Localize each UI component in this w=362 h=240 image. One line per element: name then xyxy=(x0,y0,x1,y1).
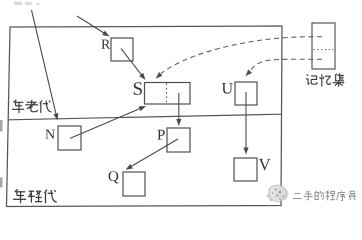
label 年 of 年轻代 xyxy=(13,189,26,203)
watermark char 手 xyxy=(304,191,313,200)
arrow N to S xyxy=(70,106,146,138)
label S xyxy=(134,82,142,95)
dashed curve from remembered set to U xyxy=(245,59,322,76)
label Q xyxy=(109,171,119,183)
heap outer rectangle xyxy=(7,26,283,207)
label 轻 of 年轻代 xyxy=(28,191,42,202)
object box Q xyxy=(123,172,145,196)
object box R xyxy=(111,38,133,61)
label 忆 of 记忆集 xyxy=(320,74,331,86)
watermark char 序 xyxy=(337,191,346,201)
dashed curve from remembered set to S xyxy=(156,37,322,79)
watermark char 程 xyxy=(326,191,335,201)
faint print smudge top-left xyxy=(14,2,40,6)
object box P xyxy=(167,128,190,152)
label R xyxy=(101,40,110,49)
object box S (two cells) xyxy=(145,83,191,105)
label 年 of 年老代 xyxy=(12,100,24,113)
arrow U to V xyxy=(243,92,248,155)
remembered set box 记忆集 xyxy=(312,23,335,69)
generation divider line xyxy=(9,114,282,120)
label 老 of 年老代 xyxy=(25,100,38,112)
object box N xyxy=(58,126,81,150)
label 记 of 记忆集 xyxy=(306,74,317,84)
arrow from GC root (top) to R xyxy=(77,16,110,37)
object box V xyxy=(234,158,257,181)
watermark char 二 xyxy=(293,194,301,199)
watermark logo icon xyxy=(267,185,289,202)
watermark char 员 xyxy=(350,191,356,200)
label 代 of 年老代 xyxy=(40,100,52,113)
arrow R to S xyxy=(121,49,146,81)
label N xyxy=(45,130,54,139)
label 集 of 记忆集 xyxy=(333,74,345,87)
label 代 of 年轻代 xyxy=(44,190,56,204)
arrow from GC root (top) to N xyxy=(32,10,59,121)
arrow S to P xyxy=(176,93,181,126)
object box U xyxy=(235,82,257,105)
arrow P to Q xyxy=(126,139,179,170)
watermark char 的 xyxy=(315,191,323,200)
label U xyxy=(222,83,233,94)
label V xyxy=(259,159,271,170)
label P xyxy=(157,130,164,140)
scan artifact marks at left edge xyxy=(0,120,3,188)
